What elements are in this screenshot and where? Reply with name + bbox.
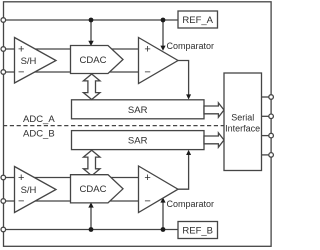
svg-text:CDAC: CDAC xyxy=(80,55,107,66)
svg-text:ADC_A: ADC_A xyxy=(23,114,55,125)
S/H amplifier A xyxy=(15,38,57,84)
pin serial 1 xyxy=(269,95,274,100)
junction dot node REF_B / CDAC_B xyxy=(89,227,94,232)
svg-text:+: + xyxy=(18,44,24,56)
svg-text:−: − xyxy=(144,66,150,78)
pin serial 3 xyxy=(269,133,274,138)
svg-text:+: + xyxy=(18,172,24,184)
wire Serial Interface pin 2 xyxy=(262,115,272,117)
pin REF_B (left) xyxy=(1,227,6,232)
wire REF_B to comparator B arrow xyxy=(160,197,165,229)
svg-text:+: + xyxy=(144,172,150,184)
wire REF_A to comparator A arrow xyxy=(160,20,165,51)
wire Serial Interface pin 1 xyxy=(262,96,272,98)
svg-text:S/H: S/H xyxy=(21,56,37,67)
junction dot node REF_A / comparator A xyxy=(161,18,166,23)
svg-text:Comparator: Comparator xyxy=(167,199,215,209)
wire REF_A to CDAC_A arrow xyxy=(88,20,93,46)
SAR_A to Serial Interface hollow arrow xyxy=(204,103,224,117)
REF_B box xyxy=(178,222,218,239)
pin serial 4 xyxy=(269,153,274,158)
pin REF_A (left) xyxy=(1,18,6,23)
wire comparator A output to SAR_A xyxy=(178,61,191,100)
SAR B box xyxy=(72,131,205,150)
svg-text:+: + xyxy=(144,44,150,56)
wire +IN_B xyxy=(3,177,139,179)
svg-text:S/H: S/H xyxy=(21,185,37,196)
pin serial 2 xyxy=(269,114,274,119)
svg-text:−: − xyxy=(144,195,150,207)
wire -IN_A xyxy=(3,71,139,73)
comparator B xyxy=(139,166,179,213)
svg-text:SAR: SAR xyxy=(128,136,148,147)
svg-text:REF_A: REF_A xyxy=(182,15,213,26)
SAR_B to Serial Interface hollow arrow xyxy=(204,133,224,147)
CDAC C2 (channel B) xyxy=(71,175,124,203)
svg-text:SAR: SAR xyxy=(128,105,148,116)
comparator A xyxy=(139,38,179,84)
pin +IN_A xyxy=(1,47,6,52)
junction dot node REF_A / CDAC_A xyxy=(89,18,94,23)
pin -IN_A xyxy=(1,70,6,75)
wire -IN_B xyxy=(3,200,139,202)
svg-text:REF_B: REF_B xyxy=(182,225,213,236)
wire REF_B to CDAC_B arrow xyxy=(88,202,93,229)
dashed channel divider xyxy=(3,125,224,127)
CDAC C1 (channel A) xyxy=(71,46,124,74)
junction dot node REF_B / comparator B xyxy=(161,227,166,232)
CDAC_B / SAR_B bidirectional hollow arrow xyxy=(83,150,100,176)
wire comparator B output to SAR_B xyxy=(178,150,191,189)
wire +IN_A xyxy=(3,48,139,50)
svg-text:−: − xyxy=(18,195,24,207)
svg-text:Interface: Interface xyxy=(225,123,260,133)
svg-text:ADC_B: ADC_B xyxy=(23,129,55,140)
pin +IN_B xyxy=(1,175,6,180)
svg-text:Comparator: Comparator xyxy=(167,41,215,51)
Serial Interface box xyxy=(224,73,262,171)
REF_A box xyxy=(178,11,218,28)
CDAC_A / SAR_A bidirectional hollow arrow xyxy=(83,74,100,100)
S/H amplifier B xyxy=(15,167,57,213)
wire Serial Interface pin 3 xyxy=(262,135,272,137)
svg-text:−: − xyxy=(18,66,24,78)
svg-text:CDAC: CDAC xyxy=(80,184,107,195)
wire REF_B line xyxy=(3,229,178,231)
svg-text:Serial: Serial xyxy=(231,112,254,122)
wire Serial Interface pin 4 xyxy=(262,154,272,156)
pin -IN_B xyxy=(1,199,6,204)
SAR A box xyxy=(72,100,205,119)
wire REF_A line xyxy=(3,19,178,21)
